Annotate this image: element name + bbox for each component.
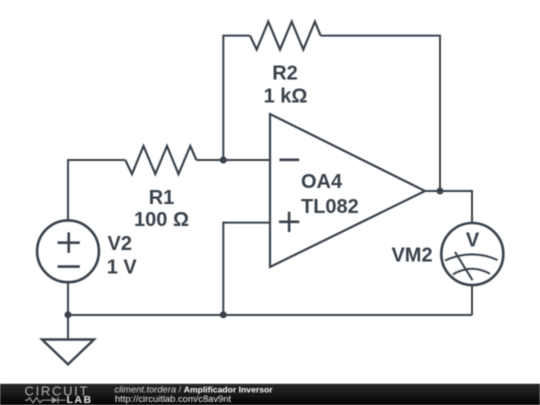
svg-text:R2: R2 (272, 63, 298, 85)
node ground-rail junction dot left (65, 311, 72, 318)
svg-text:VM2: VM2 (391, 245, 432, 267)
resistor R2 (250, 22, 321, 50)
svg-text:OA4: OA4 (301, 171, 343, 193)
V2 plus symbol (58, 232, 80, 253)
wire: bottom rail (68, 314, 472, 316)
wire: rail to ground symbol (67, 315, 69, 340)
voltage source V2 circle (37, 220, 99, 282)
voltmeter VM2 needle (455, 252, 473, 280)
wire: op-amp output to VM2 branch (425, 191, 472, 223)
svg-text:http://circuitlab.com/c8av9nt: http://circuitlab.com/c8av9nt (115, 393, 232, 404)
svg-text:100 Ω: 100 Ω (134, 209, 189, 231)
svg-text:V: V (466, 230, 480, 252)
voltmeter VM2 gauge lower arc (453, 269, 490, 275)
resistor R1 (125, 146, 196, 174)
svg-text:TL082: TL082 (301, 196, 359, 218)
logo resistor-diode glyph (25, 397, 66, 404)
node output junction dot (437, 188, 444, 195)
voltmeter VM2 gauge upper arc (445, 254, 498, 260)
svg-text:1 V: 1 V (107, 257, 138, 279)
voltmeter VM2 circle (441, 223, 503, 285)
svg-text:1 kΩ: 1 kΩ (264, 86, 308, 108)
V2 minus symbol (58, 265, 80, 268)
op-amp inverting input minus symbol (279, 159, 299, 162)
wire: non-inverting input left and down to rail (223, 223, 270, 315)
wire: VM2 bottom lead down to bottom rail (471, 285, 473, 315)
svg-text:R1: R1 (149, 187, 175, 209)
wire: V2 bottom lead (67, 282, 69, 315)
node ground-rail junction dot center (220, 311, 227, 318)
wire: feedback branch up from node A (223, 36, 250, 160)
svg-text:V2: V2 (108, 233, 132, 255)
footer bar (0, 384, 540, 405)
wire: R2 right to output column (321, 36, 440, 191)
ground (42, 340, 94, 365)
op-amp non-inverting input plus symbol (279, 212, 299, 232)
wire: V2 top lead up and right to R1 (68, 160, 125, 221)
wire: R1 to op-amp inverting input (196, 159, 270, 161)
op-amp U1 OA4 triangle (270, 114, 425, 267)
node A junction dot (inverting input) (220, 157, 227, 164)
svg-text:LAB: LAB (67, 394, 93, 405)
